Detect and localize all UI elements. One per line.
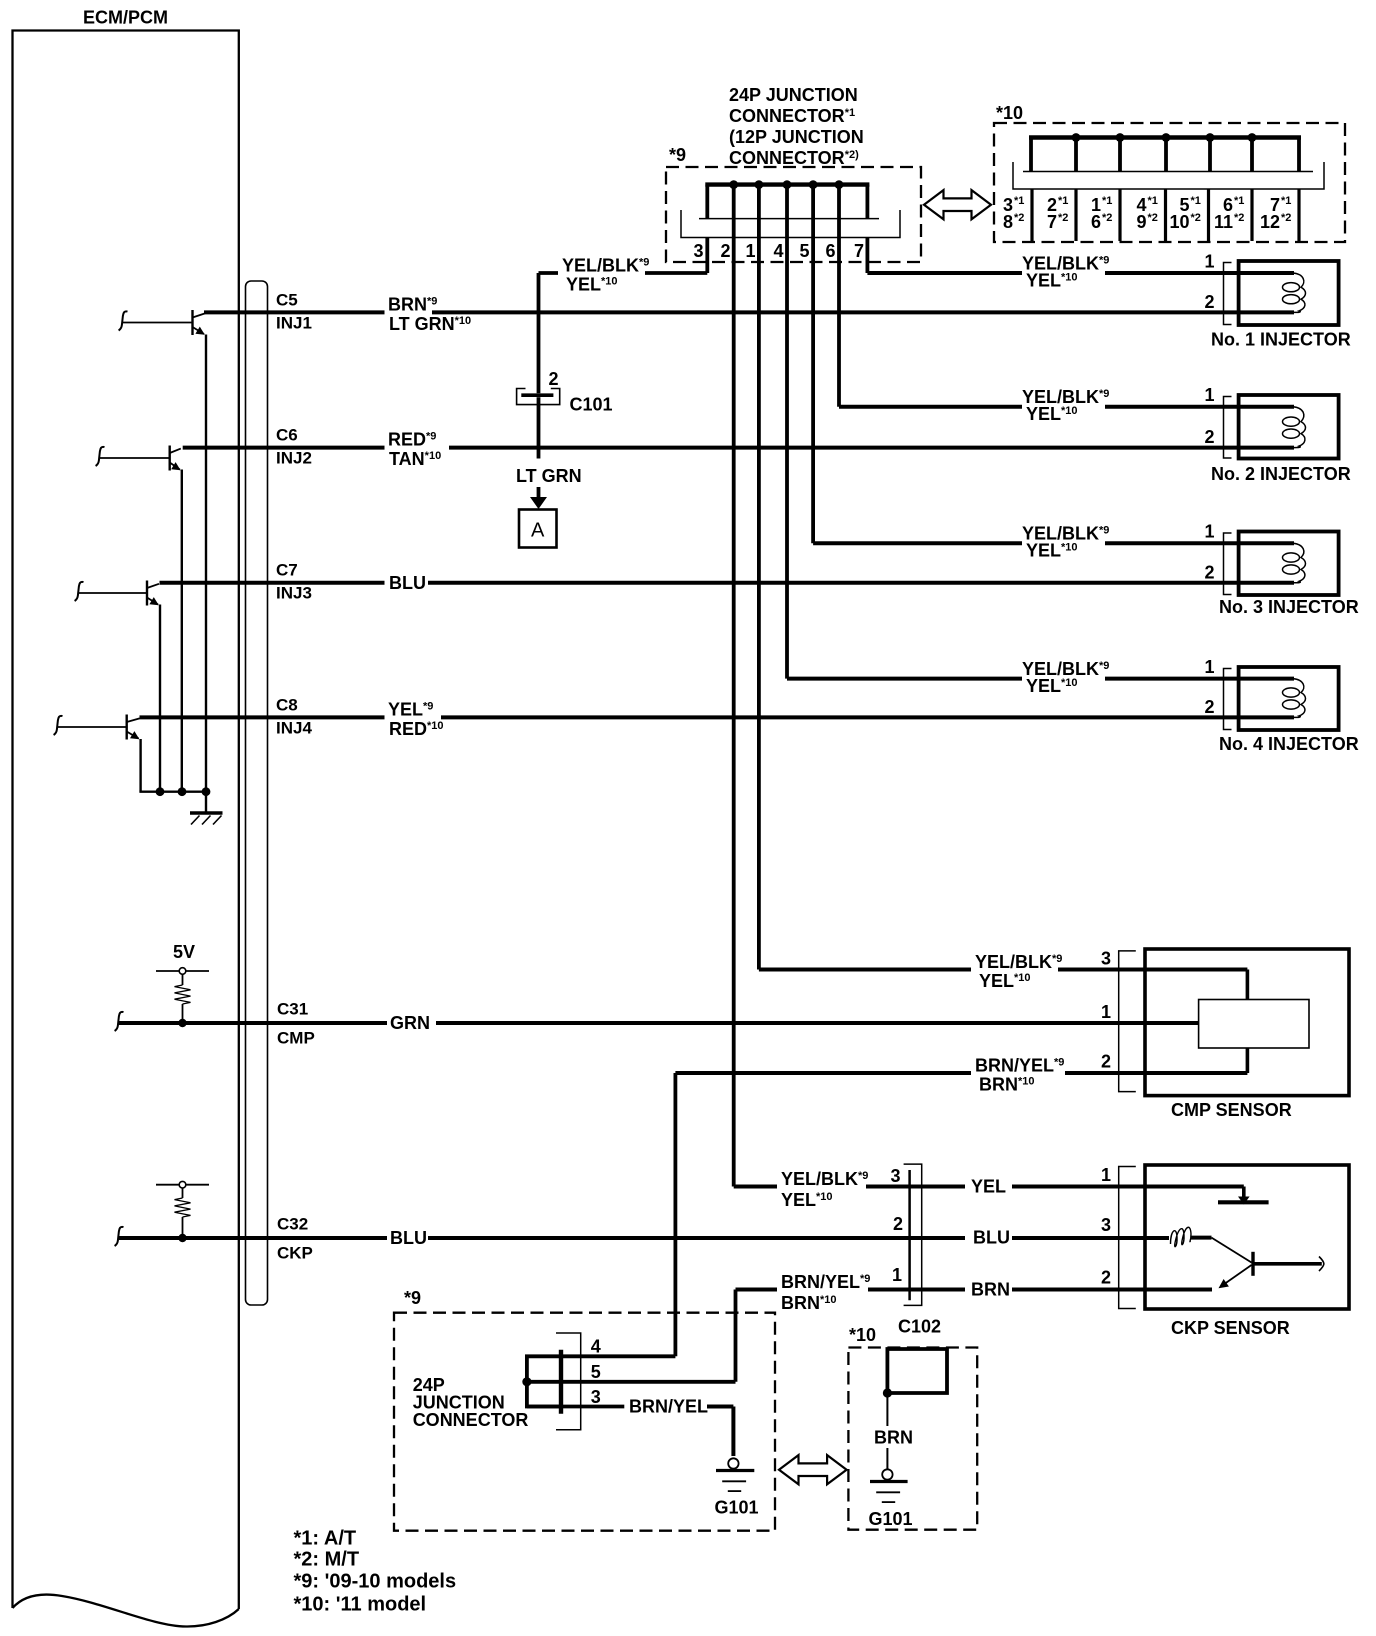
wire C102 pin1 BRN/YEL (riser to label) — [736, 1288, 778, 1292]
svg-text:*10: *10 — [849, 1325, 876, 1345]
svg-text:*2: M/T: *2: M/T — [294, 1549, 360, 1571]
off-page connector A box — [519, 510, 557, 548]
svg-text:24P JUNCTION: 24P JUNCTION — [729, 85, 858, 105]
svg-text:YEL*10: YEL*10 — [1026, 404, 1078, 424]
svg-text:2: 2 — [1101, 1268, 1111, 1288]
wire C101 to LT GRN stub — [537, 397, 541, 458]
svg-text:(12P JUNCTION: (12P JUNCTION — [729, 127, 864, 147]
injector 4 connector bracket — [1224, 669, 1232, 730]
svg-text:No. 2 INJECTOR: No. 2 INJECTOR — [1211, 464, 1351, 484]
svg-text:BRN*10: BRN*10 — [781, 1293, 837, 1313]
wire C102 pin3 YEL/BLK (turn to label) — [734, 1185, 777, 1189]
transistor Q1 base break mark — [119, 311, 128, 330]
svg-text:1: 1 — [1101, 1165, 1111, 1185]
svg-text:9: 9 — [1136, 212, 1146, 232]
wire pin4 vertical (to injector4 feed) — [785, 185, 789, 679]
svg-text:*2: *2 — [1102, 212, 1112, 224]
transistor Q3 emitter — [147, 598, 158, 605]
CKP vertex bar — [1251, 1252, 1254, 1276]
junction *10 tap dot 4 — [1206, 133, 1215, 142]
svg-text:2: 2 — [1101, 1052, 1111, 1072]
svg-text:5: 5 — [591, 1362, 601, 1382]
svg-text:*1: *1 — [1058, 195, 1068, 207]
svg-text:*9: *9 — [669, 145, 686, 165]
svg-text:LT GRN*10: LT GRN*10 — [389, 314, 471, 334]
svg-text:RED*9: RED*9 — [388, 430, 436, 450]
wire CMP pin2 BRN/YEL (label to sensor) — [1065, 1071, 1247, 1075]
svg-text:YEL: YEL — [971, 1177, 1006, 1197]
svg-text:YEL/BLK*9: YEL/BLK*9 — [975, 952, 1062, 972]
svg-text:TAN*10: TAN*10 — [389, 449, 441, 469]
wire C5/INJ1 row BRN (label to injector 1) — [432, 310, 1294, 314]
svg-text:1: 1 — [1204, 252, 1214, 272]
wire C31/CMP row GRN (ECM to label) — [119, 1021, 387, 1025]
svg-text:2: 2 — [1204, 292, 1214, 312]
junction dot emitter bus 3 — [202, 787, 211, 796]
svg-text:CONNECTOR*1: CONNECTOR*1 — [729, 106, 855, 126]
wire C6/INJ2 row RED (collector to label) — [183, 446, 385, 450]
wire C7/INJ3 row BLU (collector to label) — [160, 581, 385, 585]
svg-text:1: 1 — [1204, 385, 1214, 405]
wire bottom junction pin3 (label to ground) — [707, 1407, 733, 1457]
wire CKP pin2 BRN (label to sensor) — [1012, 1288, 1212, 1292]
pin label 7*1/12*2 (junction *10) — [1260, 195, 1291, 232]
svg-text:*2: *2 — [1191, 212, 1201, 224]
svg-text:4: 4 — [773, 241, 783, 261]
pin label 5*1/10*2 (junction *10) — [1169, 195, 1200, 232]
svg-text:*10: '11 model: *10: '11 model — [294, 1594, 427, 1616]
wire *10 BRN drop (upper) — [886, 1393, 888, 1426]
wire C32/CKP row BLU (label to C102) — [428, 1236, 965, 1240]
svg-text:BLU: BLU — [973, 1228, 1010, 1248]
svg-text:5: 5 — [799, 241, 809, 261]
injector 2 coil — [1293, 407, 1306, 448]
wire bottom junction pin4 (to CMP riser) — [561, 1354, 675, 1358]
junction *9 tap dot pin 2 — [729, 180, 738, 189]
wire pin7 vertical (to injector1 feed) — [866, 238, 870, 274]
junction *10 tap stub 1 — [1074, 138, 1078, 172]
svg-text:A: A — [531, 520, 545, 542]
junction *9 housing bracket — [681, 210, 900, 238]
transistor Q3 base break mark — [75, 582, 84, 601]
CKP output break mark — [1319, 1257, 1324, 1272]
wire C6/INJ2 row RED (label to injector 2) — [449, 446, 1294, 450]
svg-text:BRN/YEL*9: BRN/YEL*9 — [975, 1056, 1064, 1076]
svg-text:1: 1 — [1204, 522, 1214, 542]
wire bottom junction pin5 (to C102 riser) — [527, 1380, 736, 1384]
svg-text:*9: '09-10 models: *9: '09-10 models — [294, 1571, 457, 1593]
ground G101 (left) symbol — [716, 1458, 754, 1491]
svg-text:C6: C6 — [276, 426, 298, 445]
svg-text:7: 7 — [1047, 212, 1057, 232]
svg-text:ECM/PCM: ECM/PCM — [83, 8, 168, 28]
svg-text:G101: G101 — [715, 1498, 759, 1518]
wire CMP pin2 BRN/YEL (vertical riser) — [674, 1073, 678, 1356]
transistor Q3 base bar — [146, 581, 148, 606]
CKP coil upper arm — [1212, 1238, 1252, 1263]
transistor Q4 collector — [127, 718, 140, 722]
svg-text:CONNECTOR: CONNECTOR — [413, 1410, 529, 1430]
svg-text:YEL*10: YEL*10 — [1026, 676, 1078, 696]
svg-text:C5: C5 — [276, 291, 298, 310]
wire C102 pin3 YEL/BLK (label to C102) — [866, 1185, 965, 1189]
junction *10 busbar — [1029, 135, 1301, 139]
svg-text:*1: *1 — [1191, 195, 1201, 207]
svg-text:*1: *1 — [1014, 195, 1024, 207]
junction *9 busbar left bend (pin 3) — [705, 185, 709, 219]
svg-text:*2: *2 — [1281, 212, 1291, 224]
svg-text:INJ3: INJ3 — [276, 584, 312, 603]
ECM connector strip — [246, 281, 268, 1305]
injector 3 coil — [1293, 543, 1306, 583]
svg-text:YEL*10: YEL*10 — [1026, 271, 1078, 291]
connector C102 — [904, 1164, 922, 1305]
svg-text:1: 1 — [1101, 1002, 1111, 1022]
transistor Q1 emitter — [193, 327, 205, 334]
svg-text:2: 2 — [549, 369, 559, 389]
svg-text:INJ2: INJ2 — [276, 449, 312, 468]
wire CMP pin3 YEL/BLK (turn to label) — [759, 968, 971, 972]
transistor Q2 collector — [170, 449, 181, 453]
wire injector4 feed YEL/BLK (turn to label) — [787, 677, 1022, 681]
junction dot *10 ground loop — [883, 1388, 892, 1397]
wire CKP internal shield drop — [1242, 1187, 1246, 1198]
emitter wire Q4 — [139, 739, 141, 792]
svg-text:*2: *2 — [1234, 212, 1244, 224]
capacitor C101 — [517, 389, 560, 405]
transistor Q1 base bar — [191, 310, 193, 335]
svg-text:2: 2 — [893, 1214, 903, 1234]
wire C8/INJ4 row YEL (label to injector 4) — [441, 715, 1294, 719]
injector 4 box — [1239, 667, 1339, 730]
svg-text:C8: C8 — [276, 696, 298, 715]
injector 2 box — [1239, 395, 1339, 459]
wire C8/INJ4 row YEL (collector to label) — [140, 715, 385, 719]
svg-text:C101: C101 — [570, 395, 613, 415]
resistor R2 (CKP pull-up) — [175, 1198, 191, 1217]
svg-text:No. 3 INJECTOR: No. 3 INJECTOR — [1219, 597, 1359, 617]
junction *10 housing line — [1023, 171, 1313, 173]
junction connector *10 dashed box — [994, 123, 1345, 242]
svg-text:BLU: BLU — [389, 573, 426, 593]
junction connector *9 dashed box — [666, 167, 921, 262]
wire C31/CMP row GRN (label to CMP sensor) — [436, 1021, 1199, 1025]
wire pin6 vertical (to injector2 feed) — [837, 185, 841, 407]
5V supply rail (CKP) — [156, 1181, 209, 1198]
svg-text:7: 7 — [854, 241, 864, 261]
svg-text:No. 1 INJECTOR: No. 1 INJECTOR — [1211, 330, 1351, 350]
emitter wire Q3 — [159, 605, 161, 792]
svg-text:CMP: CMP — [277, 1029, 315, 1048]
wire *10 ground loop — [887, 1349, 947, 1393]
svg-text:*2: *2 — [1014, 212, 1024, 224]
pin label 1*1/6*2 (junction *10) — [1091, 195, 1112, 232]
svg-text:*1: A/T: *1: A/T — [294, 1528, 357, 1550]
svg-text:BRN*10: BRN*10 — [979, 1075, 1035, 1095]
wire injector3 feed YEL/BLK (turn to label) — [813, 541, 1022, 545]
junction *10 pin separator 1 — [1030, 189, 1033, 241]
CKP internal shield arrowhead — [1238, 1197, 1250, 1205]
svg-text:BRN/YEL*9: BRN/YEL*9 — [781, 1272, 870, 1292]
CKP connector bracket — [1119, 1167, 1136, 1309]
svg-text:2: 2 — [720, 241, 730, 261]
svg-text:10: 10 — [1169, 212, 1189, 232]
junction *10 pin separator 7 — [1297, 189, 1300, 241]
svg-text:BRN: BRN — [971, 1280, 1010, 1300]
junction bottom loop — [527, 1356, 561, 1406]
junction *10 tap dot 2 — [1116, 133, 1125, 142]
wire CMP pin3 YEL/BLK (label to sensor) — [1058, 968, 1247, 972]
wire CMP internal pin2 rise — [1246, 1048, 1250, 1074]
transistor Q2 base bar — [168, 446, 170, 471]
junction bottom busbar — [559, 1350, 563, 1414]
injector 3 connector bracket — [1224, 533, 1232, 595]
svg-text:3: 3 — [591, 1387, 601, 1407]
svg-text:4: 4 — [591, 1337, 601, 1357]
svg-text:C32: C32 — [277, 1215, 308, 1234]
pin label 6*1/11*2 (junction *10) — [1214, 195, 1244, 232]
wire C7/INJ3 row BLU (label to injector 3) — [428, 581, 1294, 585]
emitter wire Q2 — [181, 470, 183, 792]
wire C102 pin1 BRN/YEL (riser from junction pin5) — [734, 1290, 738, 1382]
junction dot CKP node — [178, 1234, 186, 1242]
svg-text:3: 3 — [1101, 1215, 1111, 1235]
svg-text:RED*10: RED*10 — [389, 719, 444, 739]
svg-text:LT GRN: LT GRN — [516, 466, 582, 486]
transistor Q3 collector — [147, 584, 159, 588]
junction connector *10 (bottom) dashed box — [848, 1348, 977, 1530]
svg-text:CKP: CKP — [277, 1244, 313, 1263]
wire *10 BRN drop (lower) — [886, 1448, 888, 1469]
svg-text:BRN: BRN — [874, 1428, 913, 1448]
transistor Q2 base break mark — [96, 447, 105, 466]
wire injector2 feed YEL/BLK (label to injector) — [1105, 405, 1294, 409]
svg-text:1: 1 — [745, 241, 755, 261]
transistor Q4 base bar — [125, 715, 127, 740]
svg-text:C102: C102 — [898, 1317, 941, 1337]
svg-text:*2: *2 — [1148, 212, 1158, 224]
junction *10 tap dot 5 — [1248, 133, 1257, 142]
wire pin5 vertical (to injector3 feed) — [811, 185, 815, 544]
injector 1 coil — [1293, 273, 1306, 312]
junction *10 tap stub 3 — [1164, 138, 1168, 172]
junction *10 pin separator 6 — [1250, 189, 1253, 241]
svg-text:INJ4: INJ4 — [276, 719, 312, 738]
break mark CMP wire left end — [115, 1012, 124, 1031]
CMP sensor box — [1145, 949, 1349, 1096]
wire C32/CKP row BLU (ECM to label) — [119, 1236, 387, 1240]
svg-text:INJ1: INJ1 — [276, 314, 312, 333]
svg-text:CKP SENSOR: CKP SENSOR — [1171, 1318, 1290, 1338]
injector 1 connector bracket — [1224, 263, 1232, 325]
wire C5/INJ1 row BRN (collector to label) — [204, 310, 385, 314]
ground G101 (right) symbol — [870, 1469, 908, 1502]
junction *9 tap dot pin 4 — [783, 180, 792, 189]
junction *10 pin separator 3 — [1118, 189, 1121, 241]
svg-text:12: 12 — [1260, 212, 1280, 232]
junction *10 tap stub 4 — [1208, 138, 1212, 172]
junction connector *9 (bottom) dashed box — [394, 1313, 775, 1531]
junction *10 tap stub 2 — [1118, 138, 1122, 172]
wire CKP coil to vertex — [1191, 1236, 1212, 1240]
svg-text:YEL/BLK*9: YEL/BLK*9 — [781, 1169, 868, 1189]
resistor R1 (CMP pull-up) — [175, 985, 191, 1004]
junction *10 busbar left bend — [1029, 138, 1033, 172]
junction *10 pin separator 2 — [1074, 189, 1077, 241]
wire injector3 feed YEL/BLK (label to injector) — [1105, 541, 1294, 545]
svg-text:8: 8 — [1003, 212, 1013, 232]
svg-text:11: 11 — [1214, 212, 1233, 232]
wire injector2 feed YEL/BLK (turn to label) — [839, 405, 1022, 409]
svg-text:G101: G101 — [869, 1509, 913, 1529]
CMP connector bracket — [1119, 951, 1136, 1092]
wire injector1 feed YEL/BLK (turn to label) — [867, 271, 1022, 275]
wire R1 to CMP node — [182, 1004, 184, 1023]
junction *10 housing bracket — [1013, 162, 1324, 189]
injector 3 box — [1239, 532, 1339, 596]
transistor Q4 base break mark — [54, 716, 63, 735]
emitter common bus — [139, 791, 206, 793]
junction *10 pin separator 5 — [1207, 189, 1210, 241]
svg-text:YEL*10: YEL*10 — [566, 275, 618, 295]
svg-text:C31: C31 — [277, 1000, 308, 1019]
CKP output line — [1253, 1262, 1322, 1266]
svg-text:*9: *9 — [404, 1288, 421, 1308]
wire injector4 feed YEL/BLK (label to injector) — [1105, 677, 1294, 681]
break mark CKP wire left end — [115, 1227, 124, 1246]
transistor Q4 emitter — [127, 732, 139, 739]
svg-text:GRN: GRN — [390, 1013, 430, 1033]
svg-text:YEL*10: YEL*10 — [979, 971, 1031, 991]
5V supply rail (CMP) — [156, 968, 209, 985]
wire junction pin3 to C101 branch (horizontal) — [539, 238, 708, 394]
svg-text:*1: *1 — [1148, 195, 1158, 207]
svg-text:BRN*9: BRN*9 — [388, 295, 437, 315]
ground (chassis) symbol — [190, 813, 223, 825]
svg-text:6: 6 — [1091, 212, 1101, 232]
transistor Q2 base wire — [100, 457, 170, 459]
wire CKP pin1 YEL (label to sensor) — [1012, 1185, 1244, 1189]
svg-text:No. 4 INJECTOR: No. 4 INJECTOR — [1219, 734, 1359, 754]
svg-text:6: 6 — [825, 241, 835, 261]
svg-text:3: 3 — [693, 241, 703, 261]
wire bottom junction pin3 BRN/YEL (to label) — [527, 1405, 624, 1409]
ECM/PCM box — [13, 31, 239, 1627]
svg-text:2: 2 — [1204, 697, 1214, 717]
junction connector title — [729, 85, 864, 168]
CMP sensor element — [1199, 1000, 1309, 1049]
transistor Q1 base wire — [123, 322, 193, 324]
wire CKP pin3 BLU (label to sensor) — [1012, 1236, 1169, 1240]
wire CMP internal pin3 drop — [1246, 970, 1250, 1001]
svg-text:CMP SENSOR: CMP SENSOR — [1171, 1100, 1292, 1120]
transistor Q2 emitter — [170, 463, 180, 470]
junction *9 tap dot pin 6 — [835, 180, 844, 189]
svg-text:YEL*9: YEL*9 — [388, 700, 433, 720]
label 24P JUNCTION CONNECTOR (bottom) — [413, 1375, 529, 1430]
junction *10 busbar right bend — [1297, 138, 1301, 172]
svg-text:*10: *10 — [996, 103, 1023, 123]
wire pin2 vertical (to C102 pin3 row) — [732, 185, 736, 1187]
svg-text:BRN/YEL: BRN/YEL — [629, 1397, 708, 1417]
junction dot CMP node — [178, 1019, 186, 1027]
junction dot emitter bus 1 — [156, 787, 165, 796]
svg-text:*2: *2 — [1058, 212, 1068, 224]
equivalence double arrow (bottom) — [779, 1455, 847, 1484]
CKP internal shield bar — [1218, 1200, 1269, 1204]
wire injector1 feed YEL/BLK (label to injector) — [1105, 271, 1294, 275]
svg-text:3: 3 — [890, 1166, 900, 1186]
wire pin1 vertical (to CMP pin3 row) — [757, 185, 761, 970]
wire C102 pin1 BRN/YEL (label to C102) — [868, 1288, 965, 1292]
svg-text:YEL*10: YEL*10 — [1026, 541, 1078, 561]
CKP lower arm with arrowhead — [1222, 1265, 1252, 1286]
svg-text:BLU: BLU — [390, 1228, 427, 1248]
pin label 2*1/7*2 (junction *10) — [1047, 195, 1068, 232]
wire bus to ground — [205, 792, 207, 812]
CKP pickup coil squiggle — [1171, 1227, 1192, 1246]
svg-text:YEL*10: YEL*10 — [781, 1190, 833, 1210]
wire R2 to CKP node — [182, 1217, 184, 1238]
junction *9 busbar — [705, 182, 869, 186]
arrow to A — [530, 487, 547, 509]
junction *10 pin separator 4 — [1164, 189, 1167, 241]
injector 2 connector bracket — [1224, 397, 1232, 459]
svg-text:YEL/BLK*9: YEL/BLK*9 — [562, 256, 649, 276]
transistor Q4 base wire — [58, 726, 127, 728]
pin label 3*1/8*2 (junction *10) — [1003, 195, 1024, 232]
svg-text:1: 1 — [892, 1265, 902, 1285]
svg-text:*1: *1 — [1281, 195, 1291, 207]
pin label 4*1/9*2 (junction *10) — [1136, 195, 1157, 232]
junction *9 tap dot pin 5 — [809, 180, 818, 189]
svg-text:3: 3 — [1101, 949, 1111, 969]
CKP sensor box — [1145, 1165, 1349, 1309]
wire CMP pin2 BRN/YEL (riser to label) — [675, 1071, 971, 1075]
junction bottom housing bracket — [556, 1333, 581, 1430]
svg-text:*1: *1 — [1102, 195, 1112, 207]
junction *9 tap dot pin 1 — [755, 180, 764, 189]
junction *10 tap dot 3 — [1162, 133, 1171, 142]
injector 1 box — [1239, 261, 1339, 325]
junction *10 tap dot 1 — [1072, 133, 1081, 142]
svg-text:*1: *1 — [1234, 195, 1244, 207]
junction *9 housing line — [699, 218, 879, 220]
junction dot emitter bus 2 — [178, 787, 187, 796]
transistor Q3 base wire — [79, 592, 147, 594]
svg-text:C7: C7 — [276, 561, 298, 580]
junction bottom tap dot pin 5 — [522, 1377, 531, 1386]
svg-text:2: 2 — [1204, 427, 1214, 447]
junction *10 tap stub 5 — [1250, 138, 1254, 172]
svg-text:CONNECTOR*2): CONNECTOR*2) — [729, 148, 859, 168]
svg-text:2: 2 — [1204, 562, 1214, 582]
injector 4 coil — [1293, 679, 1306, 718]
svg-text:1: 1 — [1204, 657, 1214, 677]
emitter wire Q1 — [205, 335, 207, 792]
junction *9 busbar right bend (pin 7) — [866, 185, 870, 219]
equivalence double arrow (top) — [924, 190, 991, 219]
transistor Q1 collector — [193, 313, 206, 317]
svg-text:5V: 5V — [173, 942, 195, 962]
